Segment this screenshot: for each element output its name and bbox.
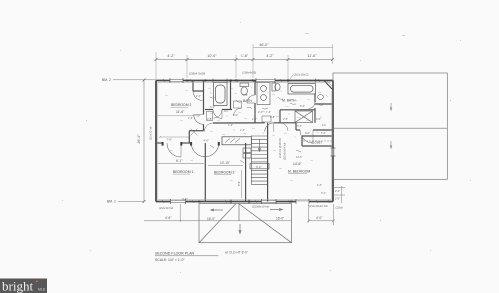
wall bedroomB east <box>203 81 205 115</box>
wall hatch marks scattered <box>162 79 330 203</box>
dim overall 46'-0" line <box>253 47 333 49</box>
scattered tiny bath dims <box>207 104 321 135</box>
door master bedroom <box>300 130 313 143</box>
svg-text:(2)2x10x12 hdr: (2)2x10x12 hdr <box>309 204 328 208</box>
wall nubs top wall <box>186 80 290 82</box>
svg-text:(2)2x8: (2)2x8 <box>336 206 344 210</box>
svg-text:26'-4": 26'-4" <box>137 134 141 144</box>
toilet 2 <box>272 83 280 91</box>
svg-text:2x10 FJ @16"OC: 2x10 FJ @16"OC <box>278 138 282 158</box>
extra tiny dims scattered <box>188 94 326 195</box>
pencil texture strokes <box>165 86 328 181</box>
toilet 1 <box>240 83 249 95</box>
svg-text:BEDROOM 1: BEDROOM 1 <box>173 170 193 174</box>
svg-text:2'-0": 2'-0" <box>335 197 340 201</box>
dim extension verticals top <box>156 44 333 79</box>
wall left exterior <box>155 81 157 202</box>
door bottom wall deck <box>296 200 309 203</box>
svg-text:1'-6": 1'-6" <box>266 111 271 114</box>
door hall to stair area <box>204 123 213 132</box>
wall vertical stair hall / master <box>295 123 297 130</box>
door stair hall <box>265 123 274 132</box>
svg-text:4'-0": 4'-0" <box>316 216 322 220</box>
linen closet boxes left of stairs <box>243 148 251 158</box>
window bottom wall master <box>262 200 277 203</box>
svg-text:2'-8": 2'-8" <box>243 94 248 97</box>
wall master bath bottom <box>280 109 315 111</box>
bright MLS logo <box>0 279 47 293</box>
wall bath divider vertical <box>230 81 232 110</box>
svg-text:BEDROOM 3: BEDROOM 3 <box>214 171 234 175</box>
roof arrow upper <box>390 103 392 109</box>
svg-text:BM. 1: BM. 1 <box>107 200 116 204</box>
dim 4'-0" bottom right <box>307 204 335 225</box>
interior dim bedroom3 <box>208 165 243 167</box>
svg-text:2'-0": 2'-0" <box>196 95 201 98</box>
bottom header labels <box>159 204 328 210</box>
dim labels top <box>167 43 317 58</box>
wall stairs right vertical <box>267 123 269 202</box>
stairwell railing box <box>222 137 251 145</box>
hip mid horizontal / dim line <box>144 220 292 222</box>
stair landing <box>250 163 269 169</box>
svg-text:(2)2x8x10 hdr: (2)2x8x10 hdr <box>252 205 269 209</box>
svg-text:2-6: 2-6 <box>322 124 326 127</box>
rotated joist texts right of stairs <box>278 138 287 160</box>
dim 11'-6 bedroomB <box>155 115 200 117</box>
door WIC <box>309 102 316 109</box>
svg-text:2'-0": 2'-0" <box>335 189 340 193</box>
dim vertical 26'-4" line <box>143 79 146 204</box>
window top wall bedroom B <box>170 79 183 82</box>
svg-text:2-0: 2-0 <box>224 110 228 113</box>
tiny leader arrows annotations <box>210 97 323 163</box>
svg-text:(2)2x10x12: (2)2x10x12 <box>293 73 308 77</box>
window right wall master <box>332 148 335 156</box>
svg-text:BATH: BATH <box>243 99 252 103</box>
svg-text:SECOND FLOOR PLAN: SECOND FLOOR PLAN <box>155 252 195 256</box>
svg-text:(2)2x10 hdr: (2)2x10 hdr <box>149 126 153 140</box>
svg-text:11'-6": 11'-6" <box>176 110 185 114</box>
hip down arrow <box>239 224 241 232</box>
wall right exterior <box>332 81 334 202</box>
hip right arrow <box>270 209 281 211</box>
wall bottom exterior <box>156 201 333 203</box>
svg-text:6'-1": 6'-1" <box>176 159 182 163</box>
hip diagonal right <box>239 204 292 243</box>
svg-text:w/ CLG HT 8'-0": w/ CLG HT 8'-0" <box>225 251 248 255</box>
svg-text:2'-0": 2'-0" <box>258 110 263 114</box>
svg-text:2'-8": 2'-8" <box>283 118 288 121</box>
dim 4'-6" bottom left <box>179 204 181 222</box>
wall top exterior <box>156 80 333 82</box>
wall bedroom3 right vertical <box>245 143 247 202</box>
svg-text:10'-10": 10'-10" <box>220 161 230 165</box>
BM 1 marker bottom left <box>107 200 144 204</box>
interior dim bedroom1 <box>158 163 204 165</box>
door closet bath <box>193 91 203 101</box>
svg-text:4'-6": 4'-6" <box>228 124 233 127</box>
hip diagonal left <box>199 204 236 243</box>
svg-text:2'-6": 2'-6" <box>188 117 193 120</box>
hip labels <box>207 217 284 222</box>
vanity double <box>257 83 270 105</box>
svg-text:10'-0": 10'-0" <box>207 54 217 58</box>
header note texts above top wall <box>189 71 309 77</box>
scan speckles <box>62 22 471 273</box>
dim segment line top <box>156 59 333 61</box>
svg-text:7'-6": 7'-6" <box>167 137 172 141</box>
closet rod master <box>303 140 332 142</box>
svg-text:2'-4": 2'-4" <box>240 129 245 132</box>
shower master <box>295 111 313 123</box>
hip left arrow <box>212 209 223 211</box>
svg-text:(2)2x10 hdr: (2)2x10 hdr <box>159 206 173 210</box>
vertical dim bedroom3 <box>241 170 243 198</box>
svg-text:16'-0": 16'-0" <box>207 217 215 221</box>
door jamb blobs corridor <box>162 142 220 146</box>
wall WIC vertical <box>314 94 316 103</box>
svg-text:4'-6": 4'-6" <box>182 197 188 201</box>
svg-text:(2)2x10x14 hdr: (2)2x10x14 hdr <box>283 142 287 160</box>
door bedroom1 <box>167 143 181 157</box>
svg-text:12'-6": 12'-6" <box>296 156 302 159</box>
svg-text:3'-0": 3'-0" <box>321 192 326 195</box>
wall inner face lines <box>158 82 331 199</box>
svg-text:9'-6": 9'-6" <box>237 181 241 186</box>
bathtub master horizontal <box>288 84 316 95</box>
hip rect <box>199 204 292 243</box>
svg-text:SCALE: 1/4" = 1'-0": SCALE: 1/4" = 1'-0" <box>155 258 185 262</box>
stairs <box>250 136 269 185</box>
hip center vertical <box>238 204 240 221</box>
svg-text:4'-0": 4'-0" <box>317 184 322 187</box>
window bottom wall bedroom1 <box>171 200 186 203</box>
svg-text:3'-0": 3'-0" <box>210 106 215 109</box>
svg-text:46'-0": 46'-0" <box>259 43 269 47</box>
svg-text:M. BATH: M. BATH <box>282 99 296 103</box>
wall bedrooms divider <box>204 143 206 202</box>
svg-text:1'-8": 1'-8" <box>241 54 249 58</box>
door pair hall <box>191 143 205 157</box>
svg-text:M. BEDROOM: M. BEDROOM <box>288 170 310 174</box>
svg-text:11'-6": 11'-6" <box>308 54 318 58</box>
window jamb ticks <box>170 78 336 204</box>
svg-text:3'-0": 3'-0" <box>256 165 261 169</box>
svg-text:4'-0": 4'-0" <box>305 131 310 135</box>
wall nubs bottom wall <box>198 201 293 203</box>
wall WC bottom <box>315 103 333 105</box>
wall bedroomB door return <box>189 130 203 132</box>
door bath1 <box>213 110 222 119</box>
wall bath bottom <box>205 109 213 111</box>
right wall small dims <box>333 186 345 203</box>
roof arrow lower <box>390 141 392 147</box>
svg-text:16'-0": 16'-0" <box>276 217 284 221</box>
bathtub 1 vertical <box>214 83 228 106</box>
door swing cross bedroomB <box>191 129 198 136</box>
svg-text:4'-2": 4'-2" <box>167 54 175 58</box>
svg-text:(2)8x4 5x5B: (2)8x4 5x5B <box>189 72 205 76</box>
svg-text:14'-6": 14'-6" <box>293 162 302 166</box>
svg-text:MLS: MLS <box>38 288 46 292</box>
window top wall bath <box>256 79 275 82</box>
roof mid line <box>333 127 447 129</box>
svg-text:3'-0": 3'-0" <box>297 125 302 128</box>
door bath2 <box>247 95 255 103</box>
svg-text:6'-0": 6'-0" <box>300 104 305 108</box>
dim 7'-6 bedroomB <box>159 136 190 138</box>
wall corridor bottom <box>156 142 163 144</box>
svg-text:5'-0": 5'-0" <box>321 132 326 135</box>
closet master top <box>302 135 333 137</box>
wall master bath left vertical <box>279 110 281 123</box>
door bedroomB <box>194 115 204 125</box>
chamfer corner top right <box>324 81 333 91</box>
svg-text:bright: bright <box>2 279 33 293</box>
sink WIC <box>318 95 324 100</box>
dim ticks top <box>155 58 335 61</box>
svg-text:4'-0": 4'-0" <box>316 117 321 121</box>
BM 2 marker top left <box>102 78 156 82</box>
svg-text:BEDROOM 2: BEDROOM 2 <box>171 103 191 107</box>
title second floor plan <box>155 251 248 263</box>
svg-text:4'-2": 4'-2" <box>266 54 274 58</box>
hall shelf boxes <box>207 101 272 122</box>
svg-text:BM. 2: BM. 2 <box>102 78 111 82</box>
svg-text:(2)8x4x5B: (2)8x4x5B <box>242 71 256 75</box>
svg-text:4'-6": 4'-6" <box>204 138 209 142</box>
extra door arcs hall <box>214 108 289 131</box>
wall stair hall top <box>213 122 265 124</box>
svg-text:CLOSET: CLOSET <box>311 141 322 145</box>
stair down arrow <box>259 139 261 150</box>
svg-text:2'-6": 2'-6" <box>252 118 257 121</box>
closet top bath <box>192 81 194 92</box>
wall bath2 vertical <box>254 81 256 96</box>
wall master bed top <box>296 129 300 131</box>
leader header note <box>290 75 293 79</box>
svg-text:4'-6": 4'-6" <box>165 216 171 220</box>
